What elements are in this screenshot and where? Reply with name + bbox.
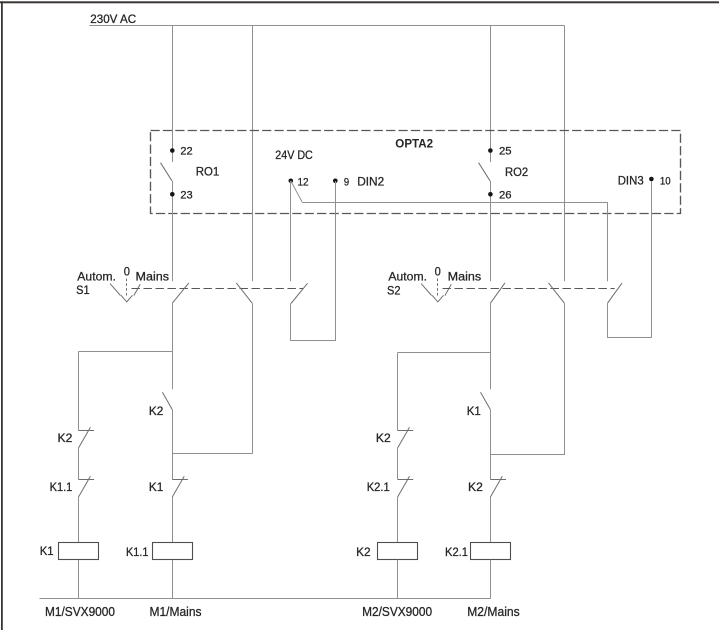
svg-text:RO1: RO1: [196, 165, 220, 179]
contact K1.1 NC bar: [79, 479, 95, 481]
svg-text:M2/Mains: M2/Mains: [467, 604, 520, 619]
contact K2 NC blade: [79, 427, 91, 448]
svg-text:230V AC: 230V AC: [90, 12, 136, 26]
contact K2 NC bar M2: [398, 430, 414, 432]
wire between K2 and K1.1: [78, 448, 80, 480]
wire to coil K2.1: [490, 497, 492, 542]
wire bus to S2 Mains contact: [564, 26, 566, 282]
wire left leg down to K2 NC M2: [397, 353, 399, 431]
terminal 10 dot: [649, 177, 654, 182]
terminal 25 dot: [488, 148, 493, 153]
coil K2: [378, 543, 418, 560]
S2 contact blade Mains M2: [549, 283, 565, 303]
wire left leg down to K2 NC: [78, 352, 80, 431]
wire S2 Mains contact down: [564, 303, 566, 455]
terminal 22 dot: [170, 148, 175, 153]
svg-text:Mains: Mains: [448, 270, 482, 284]
wire coil K1.1 to bottom bus: [172, 560, 174, 599]
wire to coil K1.1: [172, 497, 174, 542]
selector S1 right position stroke: [134, 284, 140, 295]
relay contact RO1 blade: [161, 163, 172, 181]
wire 23 down to S1: [172, 181, 174, 281]
svg-text:0: 0: [435, 264, 441, 278]
svg-text:23: 23: [180, 189, 192, 201]
wire bus to RO1 terminal 22: [172, 26, 174, 163]
wire 24V diagonal from 12: [291, 181, 302, 202]
svg-text:K2: K2: [468, 480, 483, 494]
contact K1 NO blade: [481, 392, 491, 409]
wire to DIN3 line: [608, 337, 652, 339]
svg-text:9: 9: [344, 176, 349, 188]
wire branch to K2/K1.1 leg: [79, 351, 173, 353]
selector S2 actuator dashed stem: [437, 279, 439, 297]
wire S1 DIN2 contact down: [290, 304, 292, 342]
selector S1 left position stroke: [110, 284, 121, 296]
S2 actuator dashed link: [443, 288, 615, 290]
selector S2 arrow head: [432, 295, 443, 302]
wire bus to RO2 terminal 25: [490, 26, 492, 163]
S1 contact blade DIN2: [291, 283, 308, 303]
contact K2 NC blade M2 middle: [490, 476, 502, 497]
svg-text:RO2: RO2: [505, 165, 528, 179]
svg-text:Autom.: Autom.: [388, 269, 427, 283]
svg-text:M1/Mains: M1/Mains: [150, 604, 202, 619]
svg-text:DIN3: DIN3: [618, 174, 644, 188]
contact K1.1 NC blade: [79, 476, 91, 497]
svg-text:K1.1: K1.1: [126, 545, 148, 559]
terminal 26 dot: [488, 192, 493, 197]
wire S2 DIN3 contact down: [607, 303, 609, 338]
coil K1: [59, 543, 99, 560]
S2 contact blade Autom M2: [490, 283, 505, 303]
contact K2.1 NC blade: [398, 476, 410, 497]
selector S2 left position stroke: [421, 284, 432, 296]
svg-text:0: 0: [124, 264, 130, 278]
wire bus to S1 Mains contact: [252, 26, 254, 282]
wire S2 contact down: [490, 303, 492, 389]
wire 24V link down to S2 Autom contact: [607, 202, 609, 281]
svg-text:Mains: Mains: [136, 270, 170, 284]
coil K2.1: [471, 543, 511, 560]
contact K2 NC blade M2: [398, 427, 410, 448]
contact K1 NC blade: [172, 476, 184, 497]
contact K2 NC bar: [79, 430, 95, 432]
contact K2.1 NC bar: [398, 479, 414, 481]
svg-text:DIN2: DIN2: [357, 174, 384, 188]
wire coil K2 to bottom bus: [397, 560, 399, 599]
wire DIN2 down: [335, 181, 337, 341]
svg-text:K1.1: K1.1: [50, 480, 73, 494]
wire to DIN2 line: [291, 340, 336, 342]
svg-text:26: 26: [499, 189, 512, 201]
svg-text:K2: K2: [58, 431, 73, 445]
contact K2 NC bar M2 middle: [490, 479, 506, 481]
S1 actuator dashed link: [132, 288, 304, 290]
svg-text:10: 10: [660, 176, 671, 188]
wire S1 Mains contact down: [252, 303, 254, 454]
wire K1 NO to K2 NC: [490, 410, 492, 480]
wire branch to K2/K2.1 leg: [398, 352, 491, 354]
S1 contact blade Mains M1: [236, 283, 252, 303]
svg-text:M2/SVX9000: M2/SVX9000: [362, 604, 432, 619]
svg-text:S1: S1: [76, 283, 90, 297]
svg-text:22: 22: [180, 146, 192, 158]
wire coil K1 to bottom bus: [78, 560, 80, 599]
svg-text:25: 25: [499, 146, 512, 158]
svg-text:12: 12: [298, 176, 309, 188]
wire 24V link to S2: [302, 202, 607, 204]
wire 26 down to S2: [490, 181, 492, 281]
svg-text:K2: K2: [356, 545, 371, 559]
selector S2 right position stroke: [445, 284, 451, 295]
wire 12 down to S1 Autom contact: [290, 181, 292, 281]
svg-text:M1/SVX9000: M1/SVX9000: [45, 604, 115, 619]
coil K1.1: [153, 543, 193, 560]
contact K1 NC bar: [172, 479, 188, 481]
wire Mains joins middle leg M2: [490, 454, 564, 456]
S1 contact blade Autom M1: [172, 283, 189, 303]
wire Mains joins middle leg: [172, 453, 252, 455]
svg-text:S2: S2: [387, 284, 401, 298]
svg-text:K1: K1: [40, 544, 54, 558]
selector S1 arrow head: [121, 295, 132, 302]
wire S1 contact down: [172, 303, 174, 389]
wire coil K2.1 to bottom bus: [490, 560, 492, 599]
contact K2 NO blade: [162, 392, 172, 409]
relay contact RO2 blade: [479, 163, 490, 181]
svg-text:K1: K1: [467, 404, 481, 418]
svg-text:K2: K2: [376, 431, 391, 445]
wire K2 NO to K1 NC: [172, 410, 174, 480]
wire to coil K2: [397, 497, 399, 542]
terminal 9 dot: [333, 179, 338, 184]
S2 contact blade DIN3: [608, 283, 623, 303]
svg-text:24V DC: 24V DC: [275, 148, 313, 162]
terminal 12 dot: [289, 179, 294, 184]
svg-text:K2.1: K2.1: [445, 545, 468, 559]
wire between K2 and K2.1: [397, 448, 399, 480]
OPTA2 module dashed enclosure: [151, 131, 681, 214]
terminal 23 dot: [170, 192, 175, 197]
wire DIN3 down: [651, 181, 653, 338]
wire to coil K1: [78, 497, 80, 542]
svg-text:OPTA2: OPTA2: [395, 136, 433, 150]
svg-text:Autom.: Autom.: [77, 269, 116, 283]
svg-text:K2.1: K2.1: [367, 480, 390, 494]
selector S1 actuator dashed stem: [126, 279, 128, 297]
wire bottom return bus: [40, 598, 491, 600]
wire 230V AC bus: [89, 25, 564, 27]
svg-text:K1: K1: [149, 480, 164, 494]
svg-text:K2: K2: [149, 404, 164, 418]
